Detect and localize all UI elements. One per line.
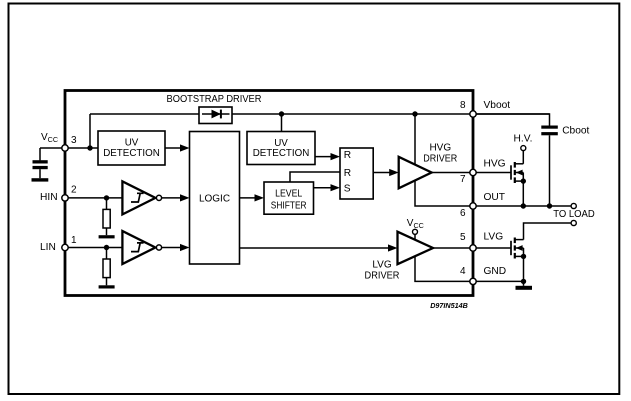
block UV detection right (247, 132, 315, 165)
wire UV right to latch R (315, 156, 333, 158)
wire pin 5 to LS gate (476, 247, 511, 249)
wire schmitt HIN to logic (162, 197, 182, 199)
svg-text:LVG: LVG (484, 231, 504, 242)
wire LVG driver output to pin 5 (433, 247, 473, 249)
wire rail riser from pin3 node (89, 114, 91, 148)
node junction LS source/body (521, 254, 526, 259)
wire HVG driver output to pin 7 (432, 172, 473, 174)
svg-text:TO LOAD: TO LOAD (553, 209, 595, 220)
diode bootstrap box (199, 107, 232, 124)
svg-text:2: 2 (71, 185, 77, 196)
svg-text:HIN: HIN (40, 192, 58, 203)
node junction HIN/resistor (104, 195, 109, 200)
svg-text:HVG: HVG (429, 143, 451, 154)
wire LIN row (65, 247, 122, 249)
schmitt trigger HIN (122, 181, 161, 214)
svg-text:DETECTION: DETECTION (253, 148, 310, 159)
svg-text:6: 6 (460, 208, 466, 219)
wire logic to LVG driver (240, 247, 391, 249)
wire latch to HVG driver (373, 172, 391, 174)
diode bootstrap (202, 110, 230, 119)
op-amp HVG driver (399, 157, 432, 189)
block LOGIC (190, 132, 240, 265)
node TO LOAD terminal lower (571, 220, 576, 225)
ground LIN resistor (99, 285, 115, 288)
svg-text:LOGIC: LOGIC (199, 194, 230, 205)
node junction LIN/resistor (104, 245, 109, 250)
pin 4 circle (470, 278, 476, 284)
wire schmitt LIN to logic (162, 247, 182, 249)
pin 3 circle (62, 145, 68, 151)
svg-text:8: 8 (460, 100, 466, 111)
node junction rail/HVG driver (412, 111, 417, 116)
ground HIN resistor (99, 235, 115, 238)
svg-text:3: 3 (71, 135, 77, 146)
wire Cboot to OUT (549, 135, 551, 206)
pin 6 circle (470, 203, 476, 209)
pin 2 circle (62, 195, 68, 201)
wire pin 7 to HS gate (476, 172, 511, 174)
wire HIN row (65, 197, 122, 199)
svg-text:OUT: OUT (484, 192, 506, 203)
svg-text:BOOTSTRAP DRIVER: BOOTSTRAP DRIVER (167, 94, 262, 105)
wire LVG driver ground to pin 4 (415, 256, 473, 281)
wire LS drain to load (524, 223, 572, 240)
svg-text:LEVEL: LEVEL (275, 189, 303, 200)
node junction HS source/OUT (521, 203, 526, 208)
svg-text:GND: GND (484, 266, 507, 277)
node junction HS source/body (521, 178, 526, 183)
wire HS source to OUT (522, 173, 524, 207)
node HV terminal (521, 146, 526, 151)
wire Vboot to Cboot (476, 114, 550, 126)
transistor LS MOSFET (511, 238, 524, 259)
node junction pin3/UV (87, 145, 92, 150)
svg-text:HVG: HVG (484, 159, 506, 170)
svg-text:H.V.: H.V. (514, 134, 533, 145)
schmitt trigger LIN (122, 231, 161, 264)
wire Vcc stub LVG driver (414, 234, 416, 240)
pin 7 circle (470, 169, 476, 175)
svg-text:LIN: LIN (40, 242, 56, 253)
svg-text:DRIVER: DRIVER (365, 271, 400, 282)
svg-text:DRIVER: DRIVER (423, 154, 457, 165)
wire bootstrap rail (90, 113, 550, 115)
wire pin 4 GND external (476, 280, 524, 282)
svg-text:4: 4 (460, 266, 466, 277)
wire GND stub (523, 281, 525, 285)
svg-text:Cboot: Cboot (562, 125, 589, 136)
node junction Cboot/OUT (547, 203, 552, 208)
block LEVEL SHIFTER (264, 182, 314, 214)
capacitor Vcc bypass (33, 160, 48, 178)
svg-text:D97IN514B: D97IN514B (430, 301, 468, 310)
svg-text:DETECTION: DETECTION (103, 148, 160, 159)
svg-text:SHIFTER: SHIFTER (271, 200, 307, 211)
svg-text:7: 7 (460, 174, 466, 185)
pin 5 circle (470, 245, 476, 251)
IC block outline (65, 91, 473, 296)
wire logic to level shifter (240, 197, 257, 199)
svg-text:R: R (344, 168, 351, 179)
capacitor Cboot (541, 126, 558, 136)
wire UV left output (165, 147, 182, 149)
transistor HS MOSFET (511, 162, 523, 183)
pin 1 circle (62, 244, 68, 250)
node junction rail/UV right (279, 111, 284, 116)
node Vcc terminal LVG driver (413, 229, 418, 234)
wire Vcc cap riser (39, 148, 41, 160)
block latch RRS (340, 148, 373, 199)
wire Vcc row to pin 3 (40, 147, 98, 149)
wire level shifter top to latch R (290, 172, 340, 182)
svg-text:5: 5 (460, 232, 466, 243)
node junction GND (521, 279, 526, 284)
wire HVG driver supply feed (414, 114, 416, 165)
wire LS source to GND (523, 248, 525, 281)
svg-text:Vboot: Vboot (484, 100, 511, 111)
node TO LOAD terminal upper (571, 203, 576, 208)
block UV detection left (98, 131, 165, 165)
svg-text:R: R (344, 150, 351, 161)
op-amp LVG driver (398, 232, 434, 265)
wire HS drain to HV terminal (522, 151, 524, 164)
resistor HIN pulldown (103, 198, 110, 235)
svg-text:LVG: LVG (372, 259, 391, 270)
wire UV right riser (281, 114, 283, 132)
wire OUT to load (476, 205, 571, 207)
svg-text:1: 1 (71, 235, 77, 246)
pin 8 circle (470, 111, 476, 117)
ground Vcc cap (32, 178, 49, 181)
wire OUT internal reference (415, 181, 473, 206)
svg-text:S: S (344, 184, 351, 195)
ground power stage (516, 286, 533, 290)
resistor LIN pulldown (103, 248, 110, 286)
wire level shifter to latch S (314, 187, 333, 189)
